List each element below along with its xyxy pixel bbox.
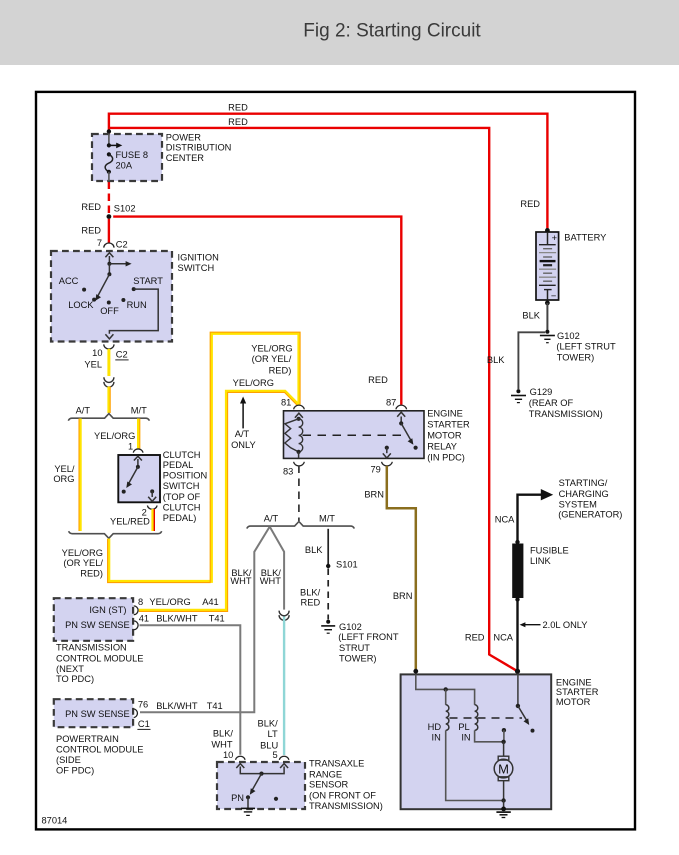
relay coil branch <box>298 418 300 420</box>
svg-text:87014: 87014 <box>42 816 68 826</box>
svg-text:7: 7 <box>97 238 102 248</box>
svg-text:MOTOR: MOTOR <box>556 697 591 707</box>
svg-text:PEDAL): PEDAL) <box>163 513 197 523</box>
relay pin 79 internal <box>385 446 389 450</box>
svg-text:C2: C2 <box>116 350 128 360</box>
2.0L ONLY note arrow <box>523 624 541 626</box>
svg-text:YEL/ORG: YEL/ORG <box>149 597 190 607</box>
svg-text:FUSIBLE: FUSIBLE <box>530 545 569 555</box>
engine starter motor relay box <box>284 411 425 459</box>
svg-text:IN: IN <box>461 732 470 742</box>
svg-text:PN SW SENSE: PN SW SENSE <box>65 620 130 630</box>
svg-text:BLK/: BLK/ <box>213 728 234 738</box>
svg-text:MOTOR: MOTOR <box>427 430 462 440</box>
wire BLK/RED dashed S101 to G102 <box>327 569 329 620</box>
wire YEL/ORG M/T branch to clutch pin 1 <box>137 419 140 449</box>
fuse 8 element <box>105 154 113 171</box>
svg-text:WHT: WHT <box>230 576 251 586</box>
svg-text:PL: PL <box>458 722 469 732</box>
svg-text:RED): RED) <box>269 365 292 375</box>
svg-text:A/T: A/T <box>235 429 250 439</box>
contact dots ACC LOCK OFF RUN START <box>82 288 86 292</box>
svg-text:TRANSMISSION): TRANSMISSION) <box>309 801 383 811</box>
svg-text:DISTRIBUTION: DISTRIBUTION <box>166 143 232 153</box>
generator arrowhead <box>541 489 553 500</box>
svg-text:STARTER: STARTER <box>556 687 599 697</box>
wire YEL/ORG TCM pin 8 to relay pin 81 <box>139 391 299 610</box>
svg-text:NCA: NCA <box>493 632 513 642</box>
svg-text:BLK: BLK <box>305 545 323 555</box>
transaxle range sensor box <box>217 762 305 809</box>
svg-text:POSITION: POSITION <box>163 471 207 481</box>
svg-text:83: 83 <box>283 466 293 476</box>
svg-text:ORG: ORG <box>53 474 74 484</box>
battery plus terminal <box>547 232 549 245</box>
svg-text:2.0L ONLY: 2.0L ONLY <box>543 620 588 630</box>
svg-text:10: 10 <box>223 750 233 760</box>
wire BRN pin 79 to starter <box>387 466 416 671</box>
svg-text:RED): RED) <box>80 568 103 578</box>
svg-text:RED: RED <box>465 632 485 642</box>
svg-text:C2: C2 <box>116 240 128 250</box>
ground G102 front strut <box>326 620 330 624</box>
svg-text:G129: G129 <box>530 387 553 397</box>
svg-text:PN SW SENSE: PN SW SENSE <box>65 709 130 719</box>
node S101 <box>326 564 330 568</box>
sensor pin 5 connector <box>279 756 289 760</box>
svg-text:−: − <box>551 291 556 301</box>
svg-text:POWER: POWER <box>166 132 201 142</box>
svg-text:M/T: M/T <box>131 405 147 415</box>
fusible link bottom dot <box>515 597 519 601</box>
svg-text:STRUT: STRUT <box>339 643 370 653</box>
svg-text:(ON FRONT OF: (ON FRONT OF <box>309 790 376 800</box>
junction dot at fuse top <box>107 129 111 133</box>
svg-text:PEDAL: PEDAL <box>163 460 194 470</box>
svg-text:(IN PDC): (IN PDC) <box>427 452 465 462</box>
svg-text:POWERTRAIN: POWERTRAIN <box>56 734 119 744</box>
svg-text:CONTROL MODULE: CONTROL MODULE <box>56 653 143 663</box>
merge bracket <box>69 531 162 538</box>
svg-text:YEL/ORG: YEL/ORG <box>233 378 274 388</box>
svg-text:TRANSMISSION): TRANSMISSION) <box>529 409 603 419</box>
svg-text:(LEFT FRONT: (LEFT FRONT <box>338 632 399 642</box>
TCM pin 8 connector <box>134 606 138 615</box>
svg-text:START: START <box>133 276 163 286</box>
svg-text:TRANSMISSION: TRANSMISSION <box>56 642 127 652</box>
wire YEL/RED clutch pin 2 to merge <box>151 509 154 531</box>
power distribution center box <box>92 134 162 181</box>
svg-text:M: M <box>498 761 509 776</box>
svg-text:(TOP OF: (TOP OF <box>163 492 201 502</box>
fusible link <box>512 544 523 599</box>
wire YEL/ORG connector to split <box>107 387 110 414</box>
svg-text:20A: 20A <box>116 160 133 170</box>
svg-text:SYSTEM: SYSTEM <box>559 499 597 509</box>
svg-text:(NEXT: (NEXT <box>56 664 84 674</box>
svg-text:(LEFT STRUT: (LEFT STRUT <box>556 341 616 351</box>
starter top junction dots <box>413 669 418 674</box>
svg-text:(OR YEL/: (OR YEL/ <box>63 558 103 568</box>
svg-text:CONTROL MODULE: CONTROL MODULE <box>56 744 143 754</box>
svg-text:LT: LT <box>268 729 278 739</box>
svg-text:LOCK: LOCK <box>68 300 94 310</box>
starter switch lower contact <box>502 728 506 732</box>
svg-text:81: 81 <box>281 397 291 407</box>
svg-text:8: 8 <box>138 597 143 607</box>
svg-text:ENGINE: ENGINE <box>556 677 592 687</box>
wire YEL ignition output <box>107 349 110 376</box>
svg-text:CLUTCH: CLUTCH <box>163 450 201 460</box>
svg-text:(GENERATOR): (GENERATOR) <box>558 510 622 520</box>
diagram frame <box>36 92 635 830</box>
svg-text:S102: S102 <box>114 203 136 213</box>
svg-text:TO PDC): TO PDC) <box>56 674 94 684</box>
svg-text:RED: RED <box>81 202 101 212</box>
wire BLK/WHT tent right leg <box>270 527 284 610</box>
starter switch <box>517 674 519 705</box>
svg-text:ONLY: ONLY <box>231 440 256 450</box>
svg-text:BLU: BLU <box>260 740 278 750</box>
svg-text:BLK/: BLK/ <box>258 719 279 729</box>
svg-text:YEL: YEL <box>84 360 102 370</box>
svg-text:10: 10 <box>92 348 102 358</box>
engine starter motor box <box>401 674 552 809</box>
svg-text:CLUTCH: CLUTCH <box>163 503 201 513</box>
battery top junction dot <box>545 228 550 233</box>
fusible link top dot <box>515 540 519 544</box>
wire RED S102 to relay pin 87 <box>113 217 401 405</box>
svg-text:WHT: WHT <box>211 740 232 750</box>
svg-text:IN: IN <box>432 732 441 742</box>
relay coil zigzag <box>285 419 299 452</box>
svg-text:STARTER: STARTER <box>427 419 470 429</box>
svg-text:OF PDC): OF PDC) <box>56 765 94 775</box>
svg-text:T41: T41 <box>207 701 223 711</box>
svg-text:T41: T41 <box>209 614 225 624</box>
svg-text:BRN: BRN <box>393 591 413 601</box>
svg-text:YEL/ORG: YEL/ORG <box>94 431 135 441</box>
wire BLK M/T branch to S101 <box>327 529 329 564</box>
svg-text:RED: RED <box>301 598 321 608</box>
svg-text:41: 41 <box>139 614 149 624</box>
svg-text:IGNITION: IGNITION <box>178 252 219 262</box>
wire RED branch to starter switch <box>109 128 518 671</box>
svg-text:Fig 2: Starting Circuit: Fig 2: Starting Circuit <box>303 21 481 42</box>
svg-text:RELAY: RELAY <box>427 441 457 451</box>
wire NCA to generator <box>518 495 542 542</box>
svg-text:SENSOR: SENSOR <box>309 779 349 789</box>
svg-text:G102: G102 <box>557 331 580 341</box>
battery plates <box>543 248 552 250</box>
coil PL IN <box>475 705 478 731</box>
coil HD IN <box>446 705 449 731</box>
wire BLK/WHT TCM pin 41 to sensor pin 10 <box>140 625 241 755</box>
svg-text:5: 5 <box>273 750 278 760</box>
svg-text:SWITCH: SWITCH <box>163 481 200 491</box>
svg-text:ACC: ACC <box>59 276 79 286</box>
motor M <box>503 742 505 756</box>
wire YEL/ORG A/T branch <box>79 419 82 532</box>
svg-text:(REAR OF: (REAR OF <box>529 398 574 408</box>
PCM pin 76 connector <box>134 709 138 718</box>
svg-text:WHT: WHT <box>260 576 281 586</box>
svg-text:A/T: A/T <box>264 513 279 523</box>
svg-text:SWITCH: SWITCH <box>178 263 215 273</box>
svg-text:BLK: BLK <box>487 355 505 365</box>
ground G129 <box>516 389 520 393</box>
svg-text:(SIDE: (SIDE <box>56 755 81 765</box>
clutch pedal position switch box <box>118 455 160 502</box>
ignition switch internals <box>108 256 110 264</box>
svg-text:RED: RED <box>368 375 388 385</box>
svg-text:C1: C1 <box>138 719 150 729</box>
svg-text:OFF: OFF <box>100 306 119 316</box>
ignition switch box <box>51 251 172 342</box>
svg-text:YEL/RED: YEL/RED <box>110 517 150 527</box>
sensor internals <box>240 767 284 774</box>
svg-text:TRANSAXLE: TRANSAXLE <box>309 759 364 769</box>
powertrain control module box <box>54 699 133 727</box>
svg-text:CHARGING: CHARGING <box>559 489 609 499</box>
starter ground <box>503 801 505 809</box>
svg-text:+: + <box>552 233 557 243</box>
battery minus terminal <box>544 289 552 291</box>
relay switch <box>400 417 402 424</box>
relay pin 79 connector <box>382 462 393 466</box>
svg-text:FUSE 8: FUSE 8 <box>116 150 149 160</box>
svg-text:A41: A41 <box>202 597 219 607</box>
fuse 8 internal wire stub <box>108 134 110 145</box>
START position wire to output <box>109 289 158 334</box>
clutch pin 2 connector <box>147 506 157 510</box>
svg-text:HD: HD <box>428 722 442 732</box>
svg-text:BLK/WHT: BLK/WHT <box>156 701 198 711</box>
inline connector chevrons right leg <box>279 611 289 616</box>
svg-text:A/T: A/T <box>76 405 91 415</box>
svg-text:RUN: RUN <box>127 300 147 310</box>
transmission control module box <box>54 598 133 641</box>
svg-text:BLK: BLK <box>522 310 540 320</box>
svg-text:RED: RED <box>81 226 101 236</box>
svg-text:YEL/: YEL/ <box>54 464 75 474</box>
wire BLK dashed pin 83 to split <box>298 466 300 522</box>
svg-text:(OR YEL/: (OR YEL/ <box>252 354 292 364</box>
wire NCA fusible link to starter <box>516 600 518 672</box>
wire RED S102 down to ignition C2 <box>108 219 110 243</box>
wire BLK/LT BLU to sensor pin 5 <box>283 617 285 756</box>
svg-text:79: 79 <box>370 464 380 474</box>
svg-text:BRN: BRN <box>364 489 384 499</box>
wire BLK/WHT tent to PCM pin 76 <box>140 527 270 713</box>
svg-text:BATTERY: BATTERY <box>564 233 606 243</box>
svg-text:RED: RED <box>228 117 248 127</box>
wire BLK battery to ground <box>546 303 548 331</box>
starter internal feed <box>416 674 475 704</box>
wire RED dashed fuse to S102 <box>108 182 110 214</box>
TCM pin 41 connector <box>134 621 138 630</box>
split bracket A/T M/T lower <box>247 522 354 529</box>
svg-text:ENGINE: ENGINE <box>427 408 463 418</box>
battery bottom dot <box>545 301 550 306</box>
sensor pin 10 connector <box>236 756 246 760</box>
svg-text:RED: RED <box>228 102 248 112</box>
svg-text:76: 76 <box>138 700 148 710</box>
fuse feed arrow <box>109 144 118 146</box>
clutch switch internals <box>137 459 139 467</box>
PL coil return <box>475 730 504 741</box>
relay coil bumps <box>299 419 303 452</box>
svg-text:YEL/ORG: YEL/ORG <box>251 343 292 353</box>
svg-text:YEL/ORG: YEL/ORG <box>62 548 103 558</box>
split bracket A/T M/T <box>68 414 149 421</box>
battery box <box>536 232 559 300</box>
starter dashed link line <box>450 717 523 719</box>
svg-text:IGN (ST): IGN (ST) <box>89 605 126 615</box>
inline connector chevrons <box>104 377 114 382</box>
svg-text:CENTER: CENTER <box>166 153 205 163</box>
svg-text:BLK/: BLK/ <box>300 588 321 598</box>
svg-text:TOWER): TOWER) <box>557 352 595 362</box>
sensor ground <box>247 797 249 808</box>
svg-text:LINK: LINK <box>530 556 551 566</box>
relay pin 83 connector <box>294 462 305 466</box>
relay control dashed line <box>303 434 405 436</box>
HD coil return <box>446 730 504 800</box>
svg-text:PN: PN <box>231 793 244 803</box>
svg-text:1: 1 <box>128 441 133 451</box>
wire BLK branch to G129 <box>518 332 545 389</box>
svg-text:NCA: NCA <box>495 515 515 525</box>
svg-text:TOWER): TOWER) <box>339 654 377 664</box>
svg-text:S101: S101 <box>336 559 358 569</box>
svg-text:BLK/WHT: BLK/WHT <box>156 614 198 624</box>
A/T ONLY note arrow <box>242 401 244 429</box>
svg-text:RANGE: RANGE <box>309 769 342 779</box>
svg-text:RED: RED <box>520 199 540 209</box>
svg-text:G102: G102 <box>339 622 362 632</box>
node S102 <box>107 214 112 219</box>
svg-text:STARTING/: STARTING/ <box>559 478 608 488</box>
wire RED fuse top to battery <box>109 114 548 230</box>
ground G102 strut tower <box>545 330 549 334</box>
ignition switch blade to LOCK <box>97 274 109 297</box>
svg-text:87: 87 <box>386 398 396 408</box>
header bar <box>0 0 679 65</box>
svg-text:M/T: M/T <box>319 513 335 523</box>
wire YEL/ORG (OR YEL/RED) merge to relay pin 81 <box>109 333 299 581</box>
